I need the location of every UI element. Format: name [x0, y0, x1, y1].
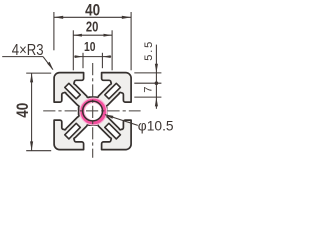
dim 5.5/7 right: extension line at 7	[134, 96, 161, 98]
svg-text:φ10.5: φ10.5	[138, 118, 174, 133]
corner void bottom-right	[105, 123, 121, 139]
dim 20 top: extension line left	[72, 30, 74, 70]
dim 40 left: top arrowhead	[30, 73, 33, 82]
dim 5.5/7 right: dimension line	[155, 45, 157, 109]
dim 40 top: left arrowhead	[54, 16, 63, 19]
dim 5.5/7 right: meeting arrow dot	[155, 81, 159, 85]
extrusion profile body	[54, 73, 131, 150]
vertical centerline	[92, 63, 94, 158]
pink highlight ring	[82, 100, 104, 122]
dim 7 right: up arrowhead	[155, 97, 158, 106]
dim 20 top: left arrowhead	[73, 34, 82, 37]
dim 5.5/7 right: extension line at top face	[134, 72, 161, 74]
label 4xR3: leader underline	[2, 56, 43, 58]
pink highlight halo	[82, 100, 104, 122]
svg-text:5.5: 5.5	[143, 42, 155, 61]
dim 10 top: extension line left	[82, 53, 84, 68]
dim 40 left: extension line bottom	[26, 150, 51, 152]
dim 20 top: dimension line	[73, 34, 112, 36]
dim 10 top: dimension line	[74, 56, 111, 58]
dim 40 top: right arrowhead	[122, 16, 131, 19]
corner void top-left	[65, 83, 81, 99]
center hole white interior	[83, 102, 102, 121]
dim 10 top: extension line right	[101, 53, 103, 68]
dim 10 top: right arrowhead outside	[102, 55, 110, 58]
dim 40 top: extension line right	[130, 12, 132, 70]
svg-text:20: 20	[86, 20, 99, 36]
corner void top-right	[105, 83, 121, 99]
dim 10 top: left arrowhead outside	[75, 55, 83, 58]
svg-text:7: 7	[143, 87, 155, 93]
dim 40 top: dimension line	[54, 16, 131, 18]
svg-text:40: 40	[85, 2, 100, 20]
svg-text:40: 40	[14, 103, 32, 118]
label 4xR3: leader diagonal	[43, 57, 53, 70]
corner void bottom-left	[65, 123, 81, 139]
hole circle phi10.5	[83, 101, 103, 121]
dim 40 top: extension line left	[53, 12, 55, 50]
dim 40 left: dimension line	[31, 73, 33, 151]
label phi10.5: leader line	[105, 115, 138, 126]
dim 40 left: bottom arrowhead	[30, 141, 33, 150]
dim 5.5 right: down arrowhead	[155, 64, 158, 73]
dim 5.5/7 right: extension line at 5.5	[134, 82, 161, 84]
label phi10.5: leader arrowhead	[104, 114, 113, 119]
horizontal centerline	[43, 110, 140, 112]
dim 40 left: extension line top	[26, 72, 51, 74]
svg-text:10: 10	[84, 40, 96, 54]
dim 20 top: extension line right	[111, 30, 113, 70]
label 4xR3: leader arrowhead	[47, 62, 53, 71]
dim 20 top: right arrowhead	[104, 34, 113, 37]
